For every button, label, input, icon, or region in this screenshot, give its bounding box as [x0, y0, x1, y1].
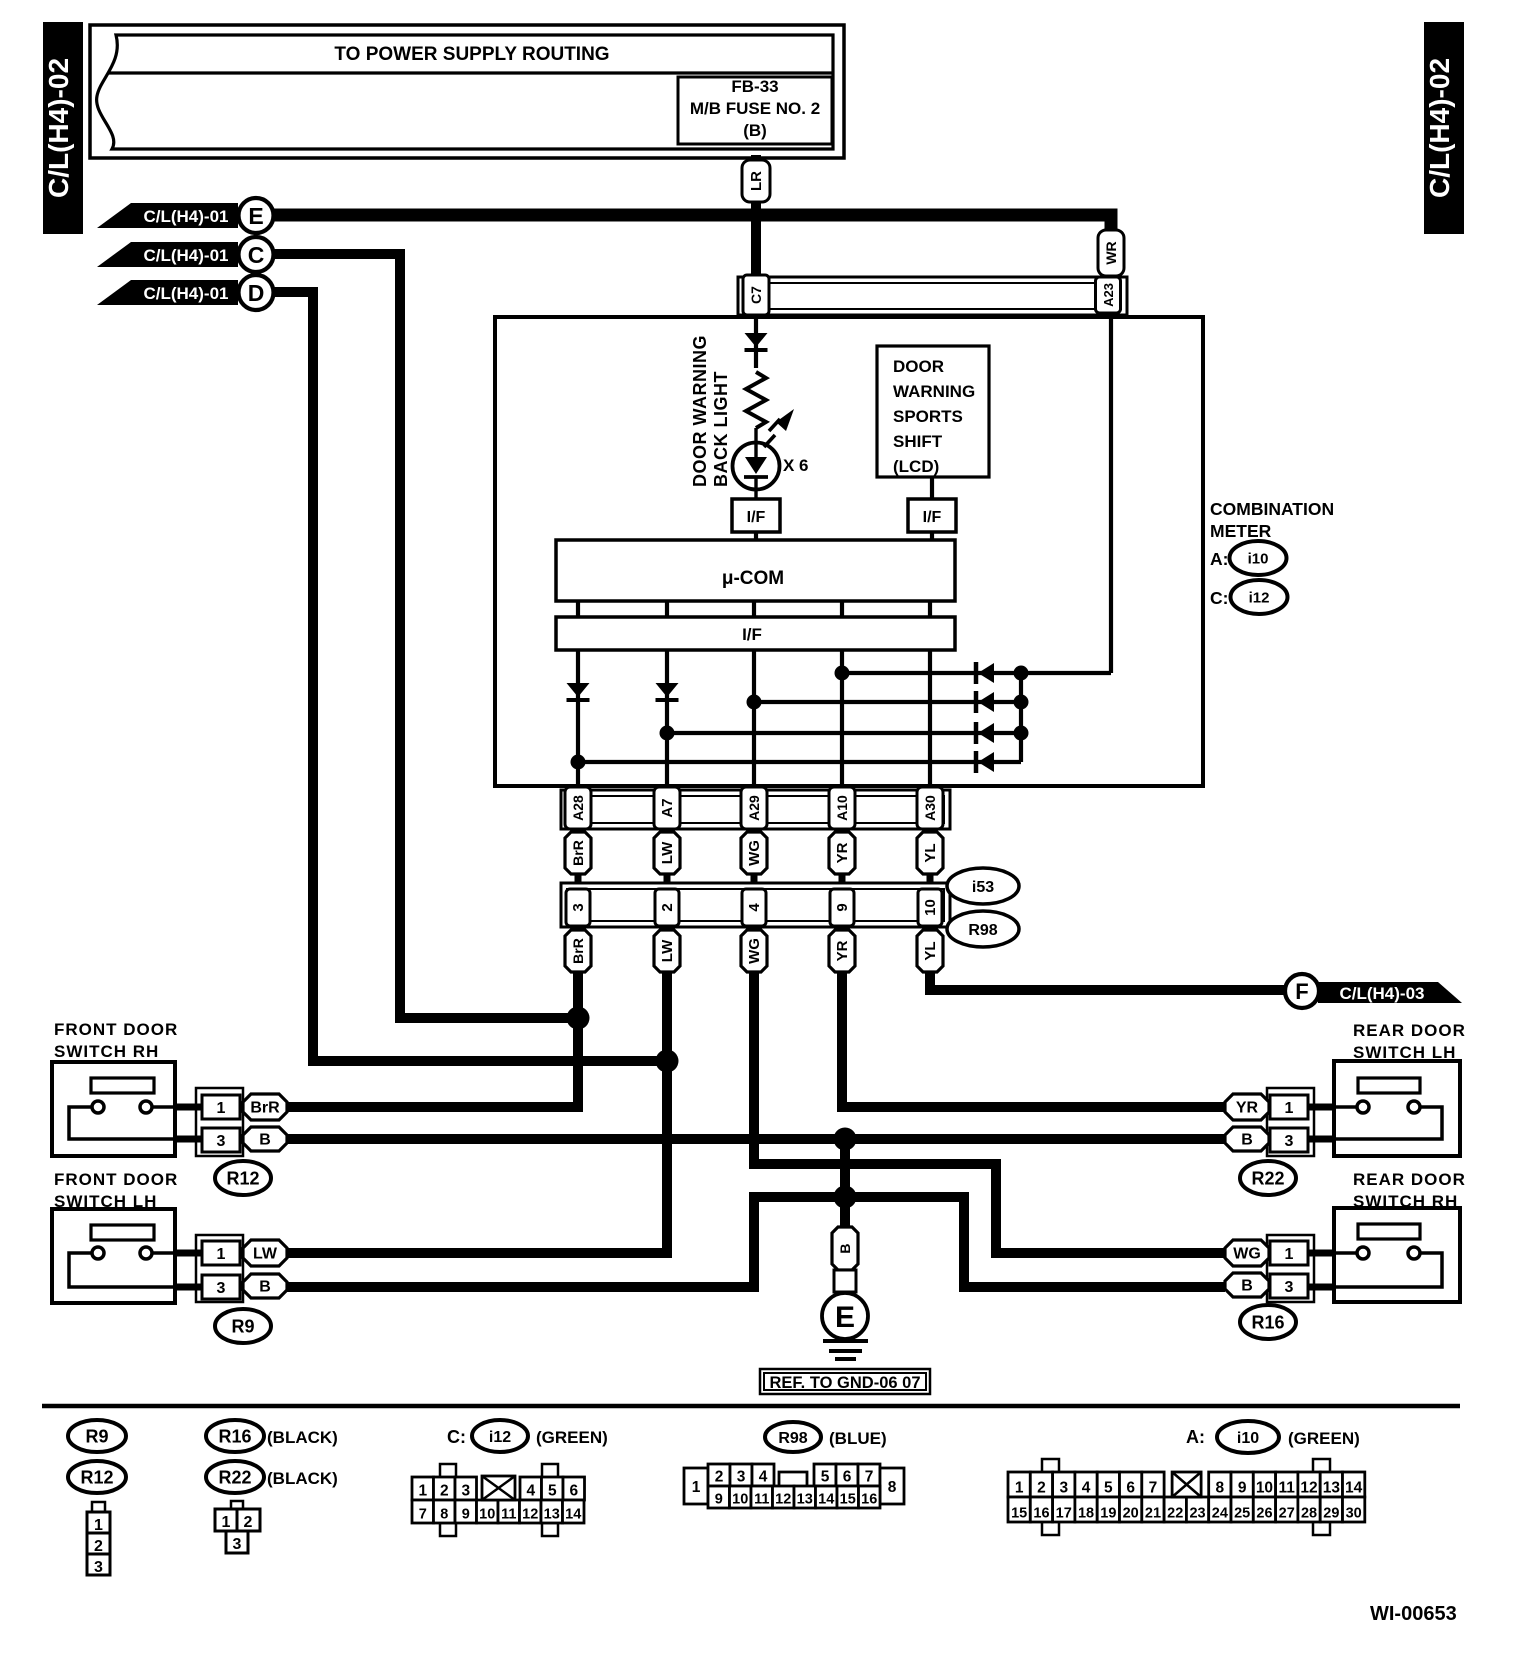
svg-text:12: 12	[775, 1492, 791, 1508]
svg-text:5: 5	[1104, 1480, 1113, 1497]
svg-text:7: 7	[1149, 1480, 1158, 1497]
svg-text:13: 13	[1323, 1480, 1341, 1497]
svg-text:8: 8	[440, 1507, 448, 1523]
svg-text:8: 8	[888, 1479, 897, 1496]
svg-text:3: 3	[217, 1133, 226, 1150]
svg-text:(LCD): (LCD)	[893, 457, 939, 476]
svg-text:3: 3	[461, 1483, 470, 1500]
svg-text:A23: A23	[1101, 283, 1116, 307]
svg-text:4: 4	[526, 1483, 535, 1500]
svg-text:R98: R98	[968, 922, 997, 939]
svg-text:11: 11	[1279, 1480, 1296, 1497]
svg-text:15: 15	[840, 1492, 856, 1508]
svg-text:i12: i12	[489, 1429, 511, 1446]
svg-text:WARNING: WARNING	[893, 382, 975, 401]
svg-text:D: D	[248, 280, 265, 306]
svg-text:LW: LW	[253, 1246, 278, 1263]
svg-text:6: 6	[843, 1469, 852, 1486]
svg-text:BrR: BrR	[250, 1100, 280, 1117]
svg-text:1: 1	[1285, 1100, 1294, 1117]
svg-text:BrR: BrR	[570, 840, 586, 866]
svg-text:LW: LW	[659, 939, 676, 962]
svg-text:16: 16	[861, 1492, 877, 1508]
svg-text:24: 24	[1212, 1506, 1228, 1522]
svg-text:C/L(H4)-01: C/L(H4)-01	[143, 246, 228, 265]
svg-text:(GREEN): (GREEN)	[536, 1428, 608, 1447]
svg-text:A30: A30	[922, 795, 938, 821]
svg-text:2: 2	[94, 1538, 103, 1555]
svg-text:R9: R9	[85, 1426, 108, 1446]
svg-text:13: 13	[544, 1507, 560, 1523]
svg-text:1: 1	[1285, 1246, 1294, 1263]
svg-text:R12: R12	[80, 1467, 113, 1487]
svg-text:REAR DOOR: REAR DOOR	[1353, 1021, 1466, 1040]
svg-text:DOOR: DOOR	[893, 357, 944, 376]
svg-text:3: 3	[1285, 1279, 1294, 1296]
svg-text:R16: R16	[1251, 1312, 1284, 1332]
svg-text:25: 25	[1234, 1506, 1250, 1522]
svg-text:R22: R22	[1251, 1168, 1284, 1188]
svg-text:COMBINATION: COMBINATION	[1210, 499, 1334, 519]
svg-text:26: 26	[1256, 1506, 1272, 1522]
svg-text:3: 3	[1285, 1133, 1294, 1150]
svg-text:YR: YR	[1236, 1100, 1259, 1117]
svg-text:R12: R12	[226, 1168, 259, 1188]
svg-text:BACK LIGHT: BACK LIGHT	[711, 371, 731, 487]
svg-text:C/L(H4)-01: C/L(H4)-01	[143, 284, 228, 303]
svg-text:SHIFT: SHIFT	[893, 432, 943, 451]
svg-text:C/L(H4)-02: C/L(H4)-02	[1424, 58, 1455, 198]
svg-text:2: 2	[244, 1514, 253, 1531]
svg-text:B: B	[1241, 1278, 1253, 1295]
svg-text:14: 14	[565, 1507, 581, 1523]
svg-text:18: 18	[1078, 1506, 1094, 1522]
svg-text:22: 22	[1167, 1506, 1183, 1522]
svg-text:1: 1	[222, 1514, 231, 1531]
svg-text:11: 11	[501, 1507, 516, 1523]
svg-text:μ-COM: μ-COM	[722, 568, 784, 589]
svg-text:12: 12	[522, 1507, 538, 1523]
svg-text:REAR DOOR: REAR DOOR	[1353, 1170, 1466, 1189]
svg-text:13: 13	[797, 1492, 813, 1508]
svg-text:1: 1	[217, 1246, 226, 1263]
svg-text:WG: WG	[746, 938, 763, 964]
svg-text:I/F: I/F	[742, 625, 762, 644]
svg-text:6: 6	[1126, 1480, 1135, 1497]
svg-text:7: 7	[865, 1469, 874, 1486]
svg-text:WG: WG	[1233, 1246, 1261, 1263]
svg-text:6: 6	[569, 1483, 578, 1500]
svg-text:SPORTS: SPORTS	[893, 407, 963, 426]
svg-text:4: 4	[1082, 1480, 1091, 1497]
svg-text:10: 10	[479, 1507, 495, 1523]
svg-text:R9: R9	[231, 1316, 254, 1336]
svg-text:B: B	[259, 1132, 271, 1149]
svg-text:7: 7	[419, 1507, 427, 1523]
svg-text:C: C	[248, 242, 265, 268]
svg-text:1: 1	[418, 1483, 427, 1500]
svg-text:A29: A29	[746, 795, 762, 821]
svg-text:FB-33: FB-33	[731, 77, 778, 96]
svg-text:A:: A:	[1186, 1427, 1205, 1447]
svg-text:4: 4	[759, 1469, 768, 1486]
svg-text:9: 9	[1238, 1480, 1247, 1497]
svg-text:E: E	[835, 1301, 855, 1334]
svg-text:REF. TO GND-06 07: REF. TO GND-06 07	[770, 1374, 921, 1392]
svg-text:WG: WG	[746, 840, 763, 866]
svg-text:SWITCH RH: SWITCH RH	[54, 1042, 159, 1061]
svg-text:X 6: X 6	[783, 456, 809, 475]
svg-text:A:: A:	[1210, 549, 1228, 569]
svg-text:R98: R98	[778, 1430, 807, 1447]
svg-text:B: B	[259, 1279, 271, 1296]
svg-text:LW: LW	[659, 841, 676, 864]
svg-text:9: 9	[834, 903, 851, 911]
svg-text:10: 10	[732, 1492, 748, 1508]
svg-text:2: 2	[659, 903, 676, 911]
svg-text:30: 30	[1346, 1506, 1362, 1522]
svg-text:21: 21	[1145, 1506, 1161, 1522]
svg-text:14: 14	[818, 1492, 834, 1508]
svg-text:M/B FUSE NO. 2: M/B FUSE NO. 2	[690, 99, 820, 118]
svg-text:3: 3	[233, 1536, 242, 1553]
svg-text:i10: i10	[1237, 1430, 1259, 1447]
svg-text:WR: WR	[1103, 241, 1119, 264]
svg-text:28: 28	[1301, 1506, 1317, 1522]
svg-text:19: 19	[1100, 1506, 1116, 1522]
svg-text:i53: i53	[972, 879, 994, 896]
svg-text:27: 27	[1279, 1506, 1295, 1522]
svg-text:3: 3	[570, 903, 587, 911]
svg-text:11: 11	[754, 1492, 769, 1508]
svg-text:WI-00653: WI-00653	[1370, 1603, 1457, 1625]
svg-text:C/L(H4)-03: C/L(H4)-03	[1339, 984, 1424, 1003]
svg-text:TO POWER SUPPLY ROUTING: TO POWER SUPPLY ROUTING	[334, 44, 609, 65]
svg-text:C/L(H4)-02: C/L(H4)-02	[43, 58, 74, 198]
svg-text:5: 5	[548, 1483, 557, 1500]
svg-text:3: 3	[737, 1469, 746, 1486]
svg-text:C7: C7	[748, 286, 764, 304]
svg-text:YR: YR	[834, 940, 851, 961]
svg-text:(BLACK): (BLACK)	[267, 1469, 338, 1488]
svg-text:(B): (B)	[743, 121, 767, 140]
svg-text:METER: METER	[1210, 521, 1272, 541]
svg-text:YL: YL	[922, 843, 939, 862]
svg-text:I/F: I/F	[923, 509, 942, 526]
svg-text:10: 10	[922, 899, 939, 916]
svg-text:C/L(H4)-01: C/L(H4)-01	[143, 207, 228, 226]
svg-text:I/F: I/F	[747, 509, 766, 526]
svg-text:DOOR WARNING: DOOR WARNING	[690, 335, 710, 487]
svg-text:1: 1	[1015, 1480, 1024, 1497]
svg-text:2: 2	[440, 1483, 449, 1500]
svg-text:3: 3	[94, 1559, 103, 1576]
svg-text:A28: A28	[570, 795, 586, 821]
svg-text:29: 29	[1323, 1506, 1339, 1522]
svg-text:R16: R16	[218, 1426, 251, 1446]
svg-text:20: 20	[1123, 1506, 1139, 1522]
svg-text:14: 14	[1345, 1480, 1363, 1497]
svg-text:17: 17	[1056, 1506, 1072, 1522]
svg-text:12: 12	[1300, 1480, 1317, 1497]
svg-text:A10: A10	[834, 795, 850, 821]
svg-text:FRONT DOOR: FRONT DOOR	[54, 1020, 178, 1039]
svg-text:(GREEN): (GREEN)	[1288, 1429, 1360, 1448]
svg-text:2: 2	[715, 1469, 724, 1486]
svg-text:LR: LR	[748, 171, 765, 191]
svg-text:23: 23	[1189, 1506, 1205, 1522]
svg-text:B: B	[837, 1243, 853, 1253]
svg-text:2: 2	[1037, 1480, 1046, 1497]
svg-text:(BLACK): (BLACK)	[267, 1428, 338, 1447]
svg-text:9: 9	[715, 1492, 723, 1508]
svg-text:F: F	[1295, 979, 1308, 1004]
svg-text:YL: YL	[922, 941, 939, 960]
svg-text:4: 4	[746, 903, 763, 912]
svg-text:E: E	[248, 203, 263, 229]
svg-text:16: 16	[1033, 1506, 1049, 1522]
svg-text:8: 8	[1216, 1480, 1225, 1497]
svg-text:YR: YR	[834, 842, 851, 863]
svg-text:R22: R22	[218, 1467, 251, 1487]
svg-text:9: 9	[462, 1507, 470, 1523]
svg-text:FRONT DOOR: FRONT DOOR	[54, 1170, 178, 1189]
svg-text:3: 3	[1059, 1480, 1068, 1497]
svg-text:10: 10	[1256, 1480, 1273, 1497]
svg-text:A7: A7	[659, 798, 676, 817]
svg-text:C:: C:	[1210, 588, 1228, 608]
svg-text:3: 3	[217, 1280, 226, 1297]
svg-text:BrR: BrR	[570, 938, 586, 964]
svg-text:1: 1	[94, 1517, 103, 1534]
svg-text:(BLUE): (BLUE)	[829, 1429, 887, 1448]
svg-text:5: 5	[821, 1469, 830, 1486]
svg-text:1: 1	[692, 1479, 701, 1496]
svg-text:C:: C:	[447, 1427, 466, 1447]
svg-text:15: 15	[1011, 1506, 1027, 1522]
svg-text:1: 1	[217, 1100, 226, 1117]
svg-text:B: B	[1241, 1132, 1253, 1149]
svg-text:i10: i10	[1248, 550, 1269, 567]
svg-text:i12: i12	[1249, 589, 1270, 606]
